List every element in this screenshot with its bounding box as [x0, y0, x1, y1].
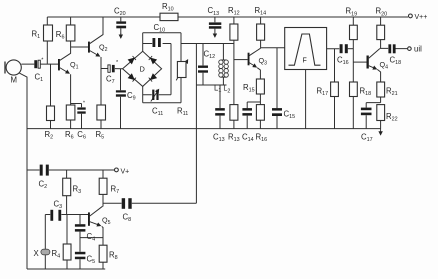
svg-text:uil: uil — [414, 45, 422, 54]
svg-text:M: M — [11, 76, 18, 85]
svg-text:V++: V++ — [415, 14, 428, 21]
svg-text:D: D — [140, 65, 145, 74]
svg-text:F: F — [303, 58, 307, 65]
svg-text:V+: V+ — [121, 169, 130, 176]
svg-text:X: X — [34, 249, 40, 258]
svg-text:*: * — [83, 101, 85, 107]
